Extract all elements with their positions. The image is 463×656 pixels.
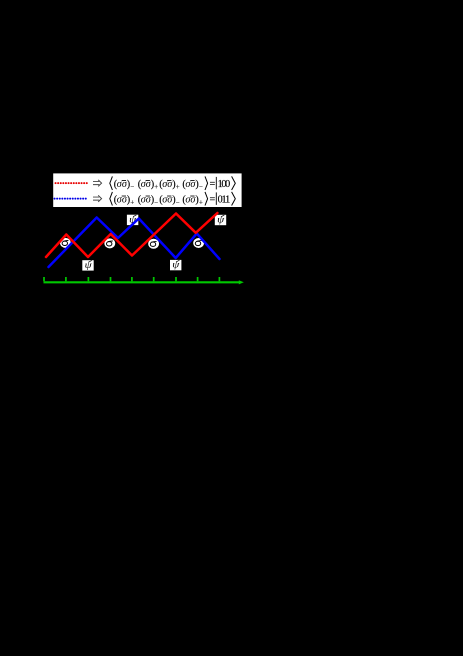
svg-text:+: + <box>176 184 180 191</box>
svg-text:100: 100 <box>218 179 231 190</box>
svg-text:+: + <box>199 200 203 207</box>
svg-text:=: = <box>210 195 216 206</box>
svg-text:ψ: ψ <box>217 214 225 225</box>
svg-text:=: = <box>210 179 216 190</box>
svg-text:−: − <box>176 200 180 207</box>
svg-text:+: + <box>130 200 134 207</box>
svg-text:+: + <box>154 184 158 191</box>
svg-text:ψ: ψ <box>85 260 93 271</box>
svg-text:ψ: ψ <box>172 260 180 271</box>
svg-text:−: − <box>154 200 158 207</box>
svg-text:011: 011 <box>218 195 231 206</box>
svg-text:−: − <box>199 184 203 191</box>
svg-text:−: − <box>130 184 134 191</box>
